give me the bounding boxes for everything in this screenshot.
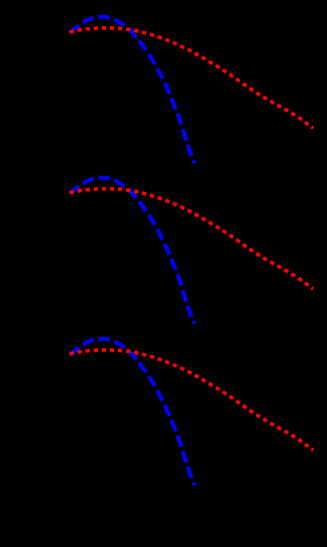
- panel 2 red dotted curve: [70, 189, 314, 289]
- panel 3 blue dashed curve: [70, 339, 195, 485]
- panel 3 (bottom): [70, 339, 314, 485]
- panel 1 (top): [70, 17, 314, 163]
- panel 2 (middle): [70, 178, 314, 324]
- panel 2 blue dashed curve: [70, 178, 195, 324]
- panel 1 blue dashed curve: [70, 17, 195, 163]
- panel 1 red dotted curve: [70, 28, 314, 128]
- panel 3 red dotted curve: [70, 350, 314, 450]
